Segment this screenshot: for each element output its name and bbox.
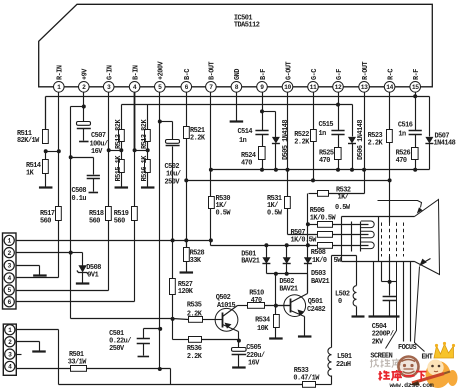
svg-text:470: 470 (396, 157, 407, 165)
svg-text:14: 14 (386, 84, 393, 91)
svg-text:C2482: C2482 (307, 306, 326, 314)
wire conn1-6 B-IN (15, 301, 135, 303)
svg-text:1K/0.5W: 1K/0.5W (291, 237, 318, 245)
svg-text:560: 560 (114, 217, 125, 225)
connector CN1 pin 6 (4, 297, 14, 307)
resistor R524 (259, 147, 266, 160)
wire D505 bottom (275, 144, 277, 170)
node diode bottoms (274, 272, 278, 276)
svg-text:1n: 1n (319, 130, 327, 138)
wire R513 junction row (135, 150, 148, 152)
resistor R528 (184, 248, 190, 262)
wire focus lead 2 (410, 262, 412, 342)
cathode K2 loop (361, 231, 374, 238)
node pin7 conn tap (209, 238, 213, 242)
svg-text:0: 0 (338, 298, 342, 306)
wire D501 link (266, 246, 268, 258)
wire R501 out (87, 368, 171, 370)
svg-text:R513 82K: R513 82K (141, 119, 149, 149)
svg-text:1K/: 1K/ (338, 194, 349, 202)
svg-text:G-IN: G-IN (107, 65, 115, 80)
wire conn1-4 R-IN (15, 277, 59, 279)
svg-text:560: 560 (40, 217, 51, 225)
svg-text:C515: C515 (319, 121, 334, 129)
wire conn1-1 (16, 240, 18, 242)
wire R510 row (265, 305, 291, 307)
svg-text:470: 470 (241, 159, 252, 167)
diode D502 BAV21 (283, 257, 291, 264)
wire B-F mini rail (263, 111, 276, 113)
svg-text:15: 15 (412, 84, 419, 91)
node C501 tap (158, 327, 162, 331)
svg-text:1K/0.5W: 1K/0.5W (310, 214, 337, 222)
svg-text:2: 2 (8, 250, 12, 257)
watermark mascot (426, 361, 451, 388)
svg-text:33/1W: 33/1W (68, 359, 88, 367)
svg-text:B-F: B-F (260, 69, 268, 80)
cathode K1 loop (361, 221, 374, 228)
connector CN1 pin 3 (4, 260, 14, 270)
ground Q501 (298, 335, 312, 337)
wire C502 to conn wire (172, 147, 174, 241)
node R527/+9V/R535 junction (171, 317, 175, 321)
node conn2 +9V (69, 251, 73, 255)
node +200V tap (158, 367, 162, 371)
wire C502 branch (160, 121, 173, 123)
wire C rail (187, 180, 390, 182)
svg-text:R501: R501 (69, 351, 84, 359)
wire +9V branch (71, 106, 84, 108)
svg-text:R534: R534 (255, 317, 270, 325)
resistor R516 (145, 160, 151, 173)
wire pin14 below R523 (389, 143, 391, 217)
resistor R521 (184, 127, 190, 139)
wire conn2-1 rail (17, 329, 59, 331)
svg-text:82K/1W: 82K/1W (17, 137, 40, 145)
capacitor C516 (409, 130, 422, 132)
wire R532 left corner (307, 194, 309, 225)
wire conn2-3 stub (17, 354, 22, 356)
svg-text:C516: C516 (398, 122, 413, 130)
node R506 tap (306, 222, 310, 226)
wire Q502 emitter to R510 (238, 305, 248, 307)
wire C516-R526 link (415, 135, 417, 148)
node pin9 branch (260, 109, 264, 113)
svg-text:1: 1 (8, 238, 12, 245)
wire R534 drop (275, 306, 277, 315)
ground D508 (76, 282, 90, 284)
resistor R536 (189, 337, 202, 343)
wire C514-R524 link (262, 135, 264, 147)
svg-text:33K: 33K (190, 257, 202, 265)
wire C505 bottom (238, 355, 240, 367)
svg-text:R515 1K: R515 1K (115, 155, 123, 182)
watermark grey chars (370, 359, 401, 369)
wire rail y104.6 (G-F net) (122, 104, 353, 106)
svg-text:3: 3 (107, 84, 111, 91)
svg-text:250V: 250V (109, 345, 125, 353)
svg-text:250V: 250V (165, 178, 181, 186)
svg-text:4: 4 (8, 275, 12, 282)
capacitor C508 (87, 175, 100, 177)
wire +9V bottom run (71, 318, 173, 320)
resistor R518 (106, 207, 112, 221)
svg-text:+200V: +200V (158, 60, 166, 80)
wire R511-R514 junction row (46, 151, 59, 153)
svg-text:0.5W: 0.5W (335, 204, 351, 212)
pin 14 (R-C) (384, 82, 395, 93)
svg-text:SCREEN: SCREEN (370, 353, 392, 361)
ground R528 (180, 271, 194, 273)
ground conn2-2 (32, 350, 46, 352)
svg-text:R-OUT: R-OUT (362, 61, 370, 80)
resistor R523 (387, 130, 393, 143)
wire BOUT cathode rail (211, 245, 333, 247)
wire Q501 emitter drop (304, 317, 306, 336)
connector CN2 body (3, 324, 16, 375)
EHT arrowhead on funnel (419, 259, 427, 267)
pin 6 (B-C) (181, 82, 192, 93)
svg-text:11: 11 (310, 84, 317, 91)
connector CN1 pin 4 (4, 273, 14, 283)
wire pin6 below R521 (186, 139, 188, 248)
svg-text:GND: GND (234, 69, 242, 80)
capacitor C504 (383, 296, 397, 298)
svg-text:470: 470 (251, 297, 262, 305)
resistor R525 (335, 148, 342, 160)
svg-text:D503: D503 (311, 270, 326, 278)
wire conn1-5 G-IN (15, 290, 109, 292)
anode arrowhead (417, 207, 423, 213)
ground bar A (352, 315, 365, 317)
ground conn1-3 (33, 274, 47, 276)
pin 8 (GND) (231, 82, 242, 93)
svg-text:1n: 1n (239, 137, 247, 145)
svg-text:120K: 120K (178, 288, 194, 296)
pin 15 (R-F) (410, 82, 421, 93)
resistor R533 (303, 382, 316, 388)
capacitor C507 (77, 122, 91, 126)
node pin12 rail (336, 103, 340, 107)
ground C505 (232, 366, 246, 368)
svg-text:9V1: 9V1 (87, 272, 98, 280)
svg-text:C501: C501 (109, 330, 124, 338)
wire D506 bottom (352, 144, 354, 170)
diode D505 (272, 137, 280, 144)
svg-text:470: 470 (319, 157, 330, 165)
wire D502 drop to base node (275, 274, 277, 306)
svg-text:B-OUT: B-OUT (209, 61, 217, 80)
pin 2 (+9V) (79, 82, 90, 93)
svg-text:1n: 1n (398, 131, 406, 139)
wire Q502 base row (203, 319, 216, 321)
wire pin13 R-OUT down (364, 93, 366, 194)
wire EHT lead (415, 267, 425, 352)
cathode heater ladder (351, 222, 353, 252)
inductor L502 (353, 286, 356, 306)
svg-text:BAV21: BAV21 (311, 278, 330, 286)
wire D503 to Q501 (307, 264, 309, 274)
svg-text:C504: C504 (372, 323, 387, 331)
svg-text:R535: R535 (187, 302, 202, 310)
wire R535 feed (173, 319, 189, 320)
capacitor C514 (255, 130, 268, 132)
wire D507 bottom (429, 144, 431, 170)
pin 3 (G-IN) (103, 82, 114, 93)
node rail pins (209, 168, 213, 172)
svg-text:R-C: R-C (387, 69, 395, 80)
connector CN1 pin 5 (4, 285, 14, 295)
svg-text:0.5W: 0.5W (216, 210, 232, 218)
wire R536 to C505 (202, 339, 239, 341)
ground R515 (115, 186, 129, 188)
pin 9 (B-F) (257, 82, 268, 93)
wire pin10 G-OUT down (287, 93, 289, 197)
resistor R501 (71, 366, 87, 372)
wire pin11 below R522 (313, 142, 315, 181)
svg-text:13: 13 (361, 84, 368, 91)
svg-text:L501: L501 (337, 353, 352, 361)
wire C501 bottom (143, 344, 145, 356)
svg-text:7: 7 (209, 84, 213, 91)
node C505 tap (237, 339, 241, 343)
resistor R531 (285, 197, 291, 209)
resistor R511 (43, 130, 49, 144)
node diode tops (264, 243, 268, 247)
inductor L501 (328, 348, 332, 377)
connector CN1 body (3, 233, 17, 309)
wire R527 column (172, 241, 174, 279)
connector CN2 pin 4 (5, 361, 15, 371)
cathode K3 loop (361, 242, 374, 249)
transistor Q501 C2482 (284, 295, 306, 317)
wire screen lead (386, 262, 397, 349)
wire pin8 GND down (236, 93, 238, 121)
svg-text:EHT: EHT (422, 353, 433, 361)
svg-text:www.dzsc.com: www.dzsc.com (390, 382, 434, 389)
wire conn2-4 R501 (17, 368, 71, 370)
node C rail joins (184, 178, 188, 182)
node R513 junction (133, 148, 137, 152)
svg-text:2KV: 2KV (372, 338, 384, 346)
diode D501 BAV21 (262, 257, 270, 264)
svg-text:10: 10 (284, 84, 291, 91)
svg-text:Q502: Q502 (216, 294, 231, 302)
resistor R532 (318, 191, 329, 197)
svg-text:G-F: G-F (336, 69, 344, 80)
svg-text:Q501: Q501 (308, 298, 323, 306)
wire anode lead (378, 201, 422, 208)
zener D508 (78, 265, 86, 272)
diode D503 BAV21 (304, 257, 312, 264)
svg-text:BAV21: BAV21 (279, 285, 298, 293)
wire R536 drop (172, 319, 174, 340)
wire C501 branch (144, 328, 161, 330)
svg-text:G-C: G-C (311, 69, 319, 80)
svg-text:2.2K: 2.2K (187, 310, 203, 318)
svg-text:10u/: 10u/ (166, 171, 181, 179)
svg-text:D505 1N4148: D505 1N4148 (282, 120, 290, 160)
watermark red text (379, 370, 427, 381)
resistor R508 (318, 243, 333, 249)
wire conn2-2 ground (17, 341, 40, 343)
resistor R512 (119, 130, 125, 142)
wire pin4 B-IN down (134, 93, 136, 151)
wire pin10 below R531 (287, 209, 289, 235)
node C504 top (388, 280, 392, 284)
transistor Q502 A1015 (215, 308, 238, 331)
svg-text:1K/0: 1K/0 (312, 257, 327, 265)
wire rail y96 (R-F net) (46, 96, 430, 98)
svg-text:C514: C514 (238, 128, 253, 136)
wire OUT rail (211, 169, 430, 171)
capacitor C515 (331, 130, 344, 132)
wire connector1 bus (17, 240, 211, 242)
ground R516 (141, 186, 155, 188)
grid G3 dashed (396, 223, 398, 257)
svg-text:16V: 16V (91, 148, 103, 156)
svg-text:R512 82K: R512 82K (115, 119, 123, 149)
svg-text:D506 1N4148: D506 1N4148 (357, 120, 365, 160)
wire pin2 +9V down (83, 93, 85, 107)
wire L502 bottom (356, 307, 358, 316)
op-amp IC501 TDA5112 body (39, 4, 433, 87)
capacitor C502 (166, 140, 180, 144)
grid G1 dashed (381, 223, 383, 257)
resistor R513 (145, 130, 151, 142)
wire D507 branch (429, 97, 431, 137)
node pin5 C502 tap (158, 120, 162, 124)
diode D506 (348, 137, 356, 144)
wire pin12 G-F down (338, 93, 340, 131)
connector CN2 pin 3 (5, 349, 15, 359)
pin 7 (B-OUT) (206, 82, 217, 93)
resistor R514 (43, 160, 49, 174)
resistor R506 (318, 222, 333, 228)
svg-text:+9V: +9V (82, 68, 90, 80)
svg-text:D508: D508 (86, 264, 101, 272)
wire pin5 +200V down (159, 93, 161, 370)
wire pin3 G-IN down (108, 93, 110, 208)
grid G4 dashed (403, 223, 405, 257)
node R512 junction (107, 148, 111, 152)
svg-text:2.2K: 2.2K (368, 139, 384, 147)
wire conn1-2 +9V (15, 252, 71, 254)
wire bottom rail (59, 384, 303, 386)
svg-text:12: 12 (335, 84, 342, 91)
node base node (274, 304, 278, 308)
svg-text:BAV21: BAV21 (241, 257, 260, 265)
connector CN1 pin 1 (4, 235, 14, 245)
wire G-OUT R507 row (288, 234, 318, 236)
resistor R517 (56, 207, 62, 221)
capacitor C501 (137, 338, 150, 340)
svg-text:10K: 10K (257, 325, 269, 333)
CRT neck outline (342, 216, 415, 218)
pin 5 (+200V) (155, 82, 166, 93)
pin 13 (R-OUT) (359, 82, 370, 93)
svg-text:22uH: 22uH (336, 361, 351, 369)
svg-text:FOCUS: FOCUS (398, 344, 417, 352)
wire D503 link (307, 225, 309, 258)
node pin15 rail (413, 94, 417, 98)
svg-text:2.2K: 2.2K (294, 139, 310, 147)
wire C504 link (389, 262, 391, 296)
ground pin8 (230, 120, 244, 122)
wire G1 ground drop (373, 262, 375, 316)
svg-text:16V: 16V (248, 359, 260, 367)
svg-text:A1015: A1015 (217, 302, 236, 310)
svg-text:C507: C507 (91, 132, 106, 140)
resistor R526 (412, 148, 419, 160)
wire conn1-3 ground (15, 265, 40, 267)
svg-text:R-IN: R-IN (57, 65, 65, 80)
svg-text:G-OUT: G-OUT (285, 61, 293, 80)
wire D502 link (286, 246, 288, 258)
svg-text:B-C: B-C (184, 69, 192, 80)
svg-text:0.5W: 0.5W (267, 210, 283, 218)
resistor R515 (119, 160, 125, 173)
wire pin7 B-OUT down (210, 93, 212, 197)
diode D507 (425, 137, 433, 144)
svg-text:R516 1K: R516 1K (141, 155, 149, 182)
wire grid node drops (381, 262, 383, 282)
svg-text:6: 6 (8, 299, 12, 306)
pin 10 (G-OUT) (282, 82, 293, 93)
pin 4 (B-IN) (129, 82, 140, 93)
ground bar B (369, 315, 400, 317)
svg-text:5: 5 (8, 287, 12, 294)
ground R514 (39, 186, 53, 188)
node R528 tap (184, 238, 188, 242)
resistor R527 (170, 279, 176, 295)
grid G2 dashed (389, 223, 391, 257)
resistor R522 (311, 130, 317, 142)
svg-text:3: 3 (8, 263, 12, 270)
resistor R530 (209, 197, 215, 209)
wire D506 branch (352, 105, 354, 137)
wire pin14 R-C down (389, 93, 391, 130)
wire C515-R525 link (338, 135, 340, 148)
resistor R534 (274, 315, 280, 328)
resistor R535 (189, 317, 203, 323)
wire diode bottom rail (266, 264, 268, 274)
pin 12 (G-F) (333, 82, 344, 93)
node pin2 +9V (82, 105, 86, 109)
svg-text:560: 560 (89, 217, 100, 225)
node +9V C508 tap (69, 155, 73, 159)
svg-text:TDA5112: TDA5112 (234, 22, 260, 30)
wire pin11 G-C down (313, 93, 315, 130)
connector CN1 pin 2 (4, 248, 14, 258)
connector CN2 pin 1 (5, 325, 15, 335)
svg-text:B-IN: B-IN (132, 65, 140, 80)
wire Q502 collector drop (238, 332, 240, 348)
connector CN2 pin 2 (5, 337, 15, 347)
watermark stamp circle (399, 357, 419, 377)
svg-text:2.2K: 2.2K (190, 135, 206, 143)
wire R528 drop (186, 241, 188, 248)
svg-text:2200P/: 2200P/ (372, 331, 394, 339)
resistor R519 (132, 207, 138, 221)
node A R511 junction (44, 149, 48, 153)
wire R506 row (308, 224, 318, 226)
svg-text:0.1u: 0.1u (72, 195, 87, 203)
wire focus lead 1 (403, 262, 405, 342)
wire node row y281.9 (382, 281, 397, 283)
svg-text:1N4148: 1N4148 (434, 140, 456, 148)
wire C504 bottom (389, 301, 391, 316)
